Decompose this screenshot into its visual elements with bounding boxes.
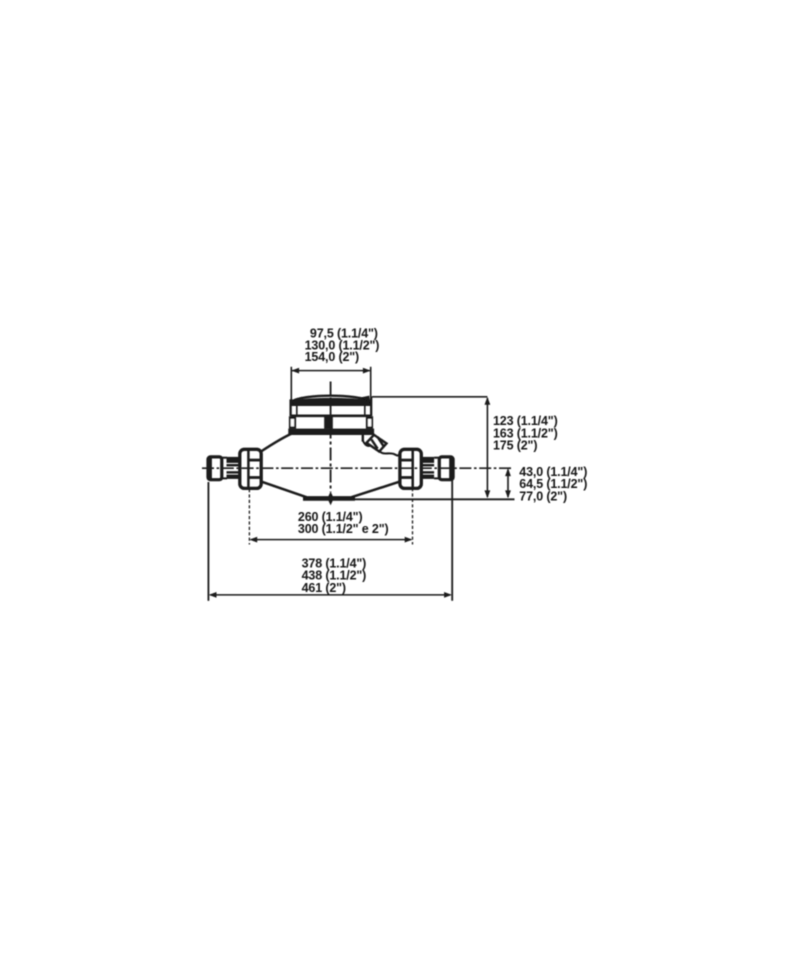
svg-text:77,0 (2"): 77,0 (2") bbox=[519, 489, 567, 503]
svg-text:461 (2"): 461 (2") bbox=[302, 581, 346, 595]
svg-text:154,0 (2"): 154,0 (2") bbox=[305, 350, 359, 364]
svg-text:175 (2"): 175 (2") bbox=[493, 439, 537, 453]
svg-text:300 (1.1/2" e 2"): 300 (1.1/2" e 2") bbox=[298, 522, 389, 536]
